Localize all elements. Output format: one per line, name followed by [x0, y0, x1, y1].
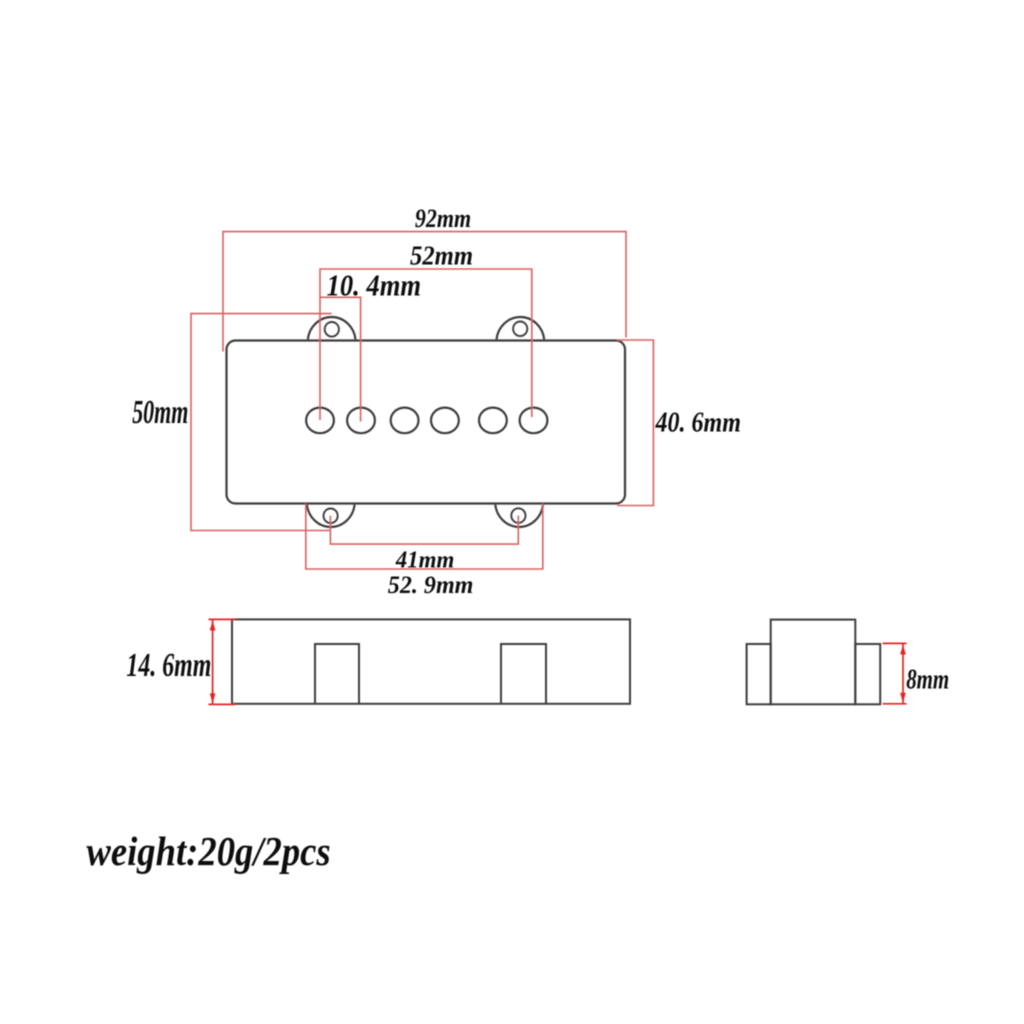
- dim 8mm arrow line: [883, 643, 907, 703]
- dim 41mm line: [330, 516, 518, 545]
- dim 14.6mm arrowheads: [210, 621, 216, 704]
- dim 52mm line: [320, 269, 532, 420]
- pole hole 2: [347, 408, 375, 434]
- svg-text:8mm: 8mm: [906, 665, 949, 696]
- pole hole 4: [431, 408, 459, 434]
- front view body rectangle: [232, 619, 630, 703]
- bottom-left mounting ear: [307, 505, 355, 527]
- side view right flange: [855, 644, 880, 704]
- pole hole 6: [520, 408, 548, 434]
- side view left flange: [747, 644, 771, 704]
- dim 50mm line: [191, 314, 332, 531]
- svg-text:41mm: 41mm: [395, 548, 455, 574]
- dim 52.9mm line: [306, 504, 543, 570]
- top-left ear screw hole: [325, 322, 339, 337]
- top-left mounting ear: [308, 317, 356, 339]
- svg-text:10. 4mm: 10. 4mm: [327, 268, 421, 303]
- dim 8mm arrowheads: [900, 645, 906, 703]
- dim 10.4mm line: [320, 297, 361, 421]
- svg-text:14. 6mm: 14. 6mm: [126, 647, 211, 684]
- pole hole 5: [479, 408, 507, 434]
- svg-text:52mm: 52mm: [410, 241, 473, 271]
- top-right ear screw hole: [513, 322, 527, 337]
- dim 92mm line: [223, 232, 626, 352]
- front view right mounting tab: [501, 644, 546, 704]
- svg-text:40. 6mm: 40. 6mm: [655, 406, 741, 438]
- side view center block: [771, 620, 856, 705]
- bottom-right mounting ear: [495, 505, 543, 527]
- svg-text:weight:20g/2pcs: weight:20g/2pcs: [86, 828, 330, 874]
- pickup cover body outline: [227, 341, 626, 504]
- svg-text:50mm: 50mm: [132, 394, 188, 431]
- top-right mounting ear: [497, 317, 545, 339]
- front view left mounting tab: [315, 644, 359, 704]
- dim 40.6mm line: [617, 340, 653, 506]
- svg-text:52. 9mm: 52. 9mm: [388, 572, 474, 599]
- bottom-left ear screw hole: [324, 509, 338, 524]
- bottom-right ear screw hole: [511, 508, 525, 523]
- svg-text:92mm: 92mm: [415, 204, 471, 233]
- dim 14.6mm arrow line: [209, 619, 236, 704]
- pole hole 1: [306, 408, 334, 434]
- pole hole 3: [391, 408, 419, 434]
